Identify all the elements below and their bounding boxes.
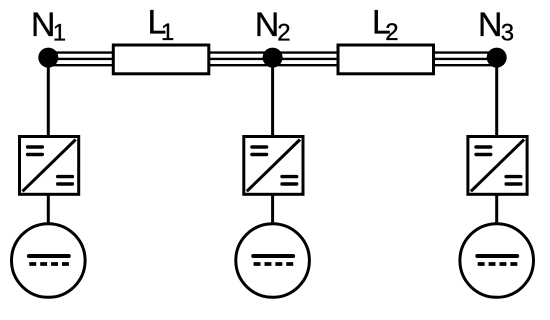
DC source 2 outline [236,224,310,298]
wire: node N1 down to converter 1 [47,58,50,140]
node N2 junction dot [263,48,283,68]
node N3 junction dot [487,48,507,68]
converter 3 DC marks (input = and output =) [476,147,521,184]
converter 3 diagonal [471,140,524,192]
converter 2 DC marks (input = and output =) [252,147,297,184]
line element L1 (rectangle symbol) [113,45,209,74]
wire: converter 3 to DC source 3 [495,192,498,228]
DC source 1 (circle symbol) [12,224,86,298]
svg-text:N: N [255,6,280,44]
svg-text:3: 3 [501,19,514,46]
converter 3 body [468,137,527,195]
svg-text:N: N [478,6,503,44]
DC source 3 (circle symbol) [460,224,534,298]
converter 2 body [244,137,303,195]
DC source 1 solid bar [29,254,69,258]
wire: converter 2 to DC source 2 [271,192,274,228]
converter 1 diagonal [23,140,76,192]
converter 1 body [20,137,79,195]
svg-text:1: 1 [53,19,66,46]
DC source 2 solid bar [253,254,293,258]
converter 1 DC marks (input = and output =) [28,147,73,184]
svg-text:N: N [31,6,56,44]
DC source 1 dashed bar [29,262,69,266]
wire: 3-conductor bus segment N2 to N3 [273,53,497,66]
converter 2 diagonal [247,140,300,192]
converter 2 (DC/DC converter box) [244,137,303,195]
DC source 2 (circle symbol) [236,224,310,298]
DC source 3 outline [460,224,534,298]
DC source 3 dashed bar [478,262,518,266]
converter 3 (DC/DC converter box) [468,137,527,195]
converter 1 (DC/DC converter box) [20,137,79,195]
DC source 2 dashed bar [254,262,294,266]
DC source 3 solid bar [477,254,517,258]
wire: node N3 down to converter 3 [495,58,498,140]
wire: converter 1 to DC source 1 [47,192,50,228]
node N1 junction dot [38,48,58,68]
wire: node N2 down to converter 2 [271,58,274,140]
svg-text:2: 2 [277,19,290,46]
line element L2 (rectangle symbol) [338,45,434,74]
wire: 3-conductor bus segment N1 to N2 [48,53,272,66]
svg-text:2: 2 [385,19,398,46]
DC source 1 outline [12,224,86,298]
svg-text:1: 1 [161,19,174,46]
